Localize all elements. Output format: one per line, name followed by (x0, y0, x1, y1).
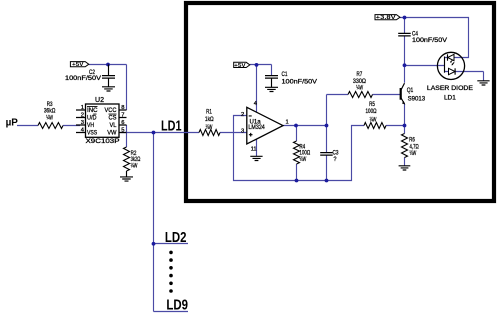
svg-text:¼W: ¼W (46, 115, 53, 122)
svg-text:VW: VW (107, 129, 117, 136)
svg-text:1: 1 (286, 119, 289, 125)
svg-text:R6: R6 (409, 137, 415, 144)
svg-text:R7: R7 (357, 71, 363, 78)
svg-text:LD2: LD2 (165, 230, 187, 246)
svg-text:µP: µP (6, 116, 18, 128)
svg-text:100nF/50V: 100nF/50V (282, 78, 318, 85)
svg-text:INC: INC (87, 107, 98, 114)
svg-text:LD9: LD9 (166, 298, 188, 314)
svg-text:U/D: U/D (87, 114, 97, 121)
svg-text:¼W: ¼W (131, 163, 138, 170)
svg-text:3: 3 (241, 128, 244, 134)
svg-text:¼W: ¼W (206, 124, 213, 131)
svg-text:VCC: VCC (105, 107, 117, 114)
svg-text:36kΩ: 36kΩ (44, 108, 56, 115)
svg-text:CS: CS (109, 114, 118, 121)
svg-text:¼W: ¼W (299, 156, 306, 163)
svg-text:7: 7 (121, 113, 124, 119)
svg-text:8: 8 (121, 105, 124, 111)
svg-text:C1: C1 (282, 71, 288, 78)
svg-text:LASER DIODE: LASER DIODE (427, 85, 473, 92)
svg-text:1: 1 (81, 105, 84, 111)
svg-text:S9013: S9013 (408, 95, 426, 102)
svg-text:3: 3 (81, 120, 84, 126)
svg-text:2: 2 (241, 112, 244, 118)
svg-text:+5V: +5V (234, 63, 246, 69)
svg-text:¼W: ¼W (356, 85, 363, 92)
svg-text:VL: VL (110, 122, 117, 129)
svg-text:VH: VH (87, 122, 94, 129)
svg-text:¼W: ¼W (370, 117, 377, 124)
svg-text:+3.8V: +3.8V (376, 15, 397, 21)
svg-text:X9C103P: X9C103P (86, 138, 121, 145)
svg-text:VSS: VSS (87, 129, 98, 136)
svg-text:1kΩ: 1kΩ (205, 116, 214, 123)
svg-text:2: 2 (81, 113, 84, 119)
svg-text:¼W: ¼W (410, 150, 417, 157)
svg-text:LM324: LM324 (248, 124, 265, 131)
svg-text:LD1: LD1 (444, 95, 456, 102)
svg-text:R1: R1 (206, 109, 212, 116)
svg-text:100Ω: 100Ω (366, 108, 377, 115)
svg-text:100nF/50V: 100nF/50V (65, 75, 101, 82)
svg-text:100nF/50V: 100nF/50V (412, 37, 447, 44)
svg-text:+5V: +5V (72, 62, 84, 68)
svg-text:Q1: Q1 (407, 87, 414, 94)
svg-text:5: 5 (121, 128, 124, 134)
svg-text:LD1: LD1 (161, 118, 182, 134)
svg-text:?: ? (334, 156, 337, 163)
svg-text:U2: U2 (95, 95, 104, 104)
svg-text:11: 11 (251, 147, 257, 153)
svg-text:6: 6 (121, 120, 124, 126)
